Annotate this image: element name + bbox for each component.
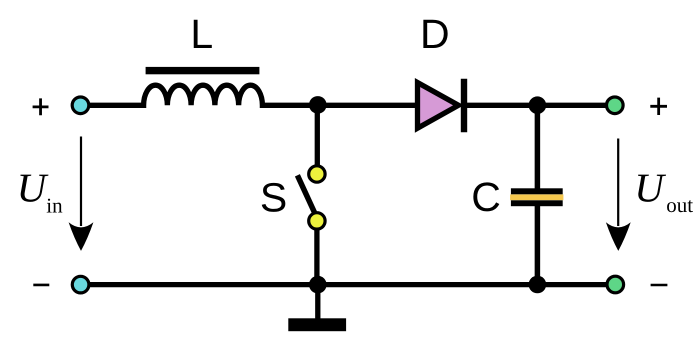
capacitor bottom plate bbox=[511, 200, 563, 206]
minus sign output bbox=[651, 284, 668, 287]
switch lever S bbox=[297, 175, 314, 212]
svg-text:C: C bbox=[471, 174, 501, 220]
svg-text:L: L bbox=[190, 11, 213, 57]
wire switch upper bbox=[315, 103, 320, 170]
wire bottom rail bbox=[88, 282, 614, 287]
wire capacitor upper bbox=[535, 103, 541, 191]
plus sign output bbox=[650, 98, 667, 115]
svg-text:S: S bbox=[260, 175, 287, 221]
diode cathode bar bbox=[461, 79, 467, 133]
svg-text:U: U bbox=[17, 165, 49, 211]
Uin arrow shaft bbox=[80, 137, 82, 227]
Uout arrow shaft bbox=[617, 139, 619, 227]
terminal output + (green) bbox=[607, 97, 624, 114]
ground stem bbox=[315, 285, 320, 320]
capacitor C gold dielectric bbox=[510, 194, 563, 200]
Uout arrowhead bbox=[606, 222, 631, 251]
node junction top right bbox=[529, 96, 547, 114]
wire top left through inductor bbox=[88, 85, 318, 105]
terminal input + (cyan) bbox=[72, 97, 89, 114]
wire junction to diode bbox=[318, 103, 419, 108]
switch contact top (yellow) bbox=[309, 166, 325, 182]
plus sign input bbox=[33, 98, 49, 115]
switch contact bottom (yellow) bbox=[309, 213, 325, 229]
wire diode to output terminal bbox=[461, 103, 613, 108]
Uin arrowhead bbox=[69, 222, 94, 251]
svg-text:out: out bbox=[666, 193, 693, 217]
inductor core bar L bbox=[146, 67, 260, 74]
svg-text:D: D bbox=[420, 11, 450, 57]
minus sign input bbox=[33, 284, 49, 287]
wire capacitor lower bbox=[535, 203, 541, 287]
diode D triangle bbox=[418, 83, 459, 129]
node junction bottom mid bbox=[309, 276, 327, 294]
wire switch lower bbox=[314, 225, 319, 287]
node junction bottom right bbox=[529, 276, 547, 294]
ground bar bbox=[288, 318, 346, 331]
node junction top mid bbox=[309, 96, 327, 114]
capacitor top plate bbox=[511, 188, 563, 194]
terminal output - (green) bbox=[607, 276, 624, 293]
svg-text:in: in bbox=[46, 193, 63, 217]
terminal input - (cyan) bbox=[72, 276, 89, 293]
svg-text:U: U bbox=[634, 165, 666, 211]
